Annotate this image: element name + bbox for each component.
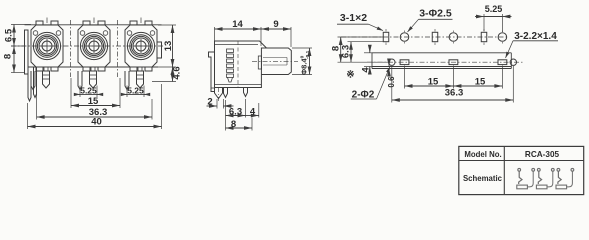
jack J1 bottom tabs bbox=[36, 67, 43, 71]
jack J3 top mounting tabs bbox=[130, 21, 137, 25]
body outline bbox=[215, 41, 267, 88]
jack J3 concentric barrel circles bbox=[127, 32, 154, 59]
dim 40 under left view bbox=[27, 103, 29, 129]
jack J3 bottom tabs bbox=[130, 67, 137, 71]
dim 5.25 under jack 3 bbox=[126, 86, 128, 98]
jack J1 body square with chamfered corners bbox=[31, 25, 63, 67]
slot hole 2.2x1.4 #1 bbox=[400, 60, 409, 65]
schematic jack 1 tip pin with switch bbox=[518, 168, 521, 171]
barrel inner hidden lines bbox=[263, 57, 287, 59]
body right edge bbox=[510, 53, 512, 69]
bottom row dash-dot centerline bbox=[367, 61, 524, 63]
dim 6.5 / 8 vertical at far left bbox=[11, 24, 31, 26]
svg-text:4.6: 4.6 bbox=[172, 66, 183, 79]
left mounting bracket bbox=[25, 30, 29, 74]
slot hole 1x2 #3 bbox=[481, 32, 487, 41]
jack J2 thin pin bbox=[78, 71, 82, 90]
jack J2 top mounting tabs bbox=[83, 21, 90, 25]
body top edge line bbox=[372, 52, 511, 54]
table column divider bbox=[503, 146, 505, 194]
jack J3 center cross bbox=[134, 45, 148, 47]
body left edge bbox=[371, 53, 373, 69]
dim 5.25 top right bbox=[483, 14, 485, 31]
svg-text:5.25: 5.25 bbox=[485, 4, 503, 14]
dim 15 under left view bbox=[70, 78, 72, 108]
svg-text:3-1×2: 3-1×2 bbox=[340, 12, 367, 24]
housing bottom edge line bbox=[28, 66, 158, 68]
slot hole 1x2 #2 bbox=[432, 32, 438, 41]
svg-text:13: 13 bbox=[163, 41, 174, 52]
left PCB bracket of side view bbox=[209, 52, 215, 92]
jack J1 center cross bbox=[40, 45, 54, 47]
horizontal centerline through jacks bbox=[11, 45, 163, 47]
svg-text:5.25: 5.25 bbox=[80, 86, 97, 96]
jack J3 body square with chamfered corners bbox=[125, 25, 157, 67]
inner wall hidden line bbox=[237, 41, 239, 88]
svg-text:8: 8 bbox=[231, 119, 236, 130]
svg-text:3-Φ2.5: 3-Φ2.5 bbox=[419, 8, 452, 20]
schematic jack 1 ground pin bbox=[532, 168, 535, 171]
dim 36.3 under PCB view bbox=[391, 66, 393, 103]
svg-text:15: 15 bbox=[428, 77, 439, 88]
svg-text:6.3: 6.3 bbox=[341, 45, 352, 58]
body bottom plate line bbox=[215, 84, 262, 86]
dim phi8.4 right of barrel bbox=[292, 47, 312, 49]
left bracket leg 2 bbox=[34, 67, 37, 98]
jack J3 corner detail circles bbox=[127, 31, 132, 36]
schematic jack 2 sleeve rectangle bbox=[536, 185, 547, 189]
svg-text:3-2.2×1.4: 3-2.2×1.4 bbox=[514, 31, 557, 42]
jack J2 bottom tabs bbox=[83, 67, 90, 71]
jack J3 ribbed signal pin bbox=[137, 71, 144, 88]
svg-text:15: 15 bbox=[88, 96, 99, 107]
jack J1 thin pin bbox=[31, 71, 35, 90]
jack J2 center cross bbox=[87, 45, 101, 47]
schematic jack 3 sleeve rectangle bbox=[556, 185, 567, 189]
svg-text:4: 4 bbox=[250, 107, 256, 118]
jack J1 vertical centerline tick above bbox=[46, 18, 48, 24]
slot hole 1x2 #1 bbox=[383, 32, 389, 41]
svg-text:6.5: 6.5 bbox=[4, 28, 15, 42]
schematic jack 3 ground pin bbox=[571, 168, 574, 171]
dim 13 vertical right side bbox=[158, 24, 176, 26]
hole phi2.5 #2 bbox=[449, 33, 458, 42]
schematic jack 3 tip pin with switch bbox=[557, 168, 560, 171]
svg-text:36.3: 36.3 bbox=[445, 88, 464, 99]
dim 6.3 and 4 under middle view bbox=[225, 100, 227, 131]
jack J2 concentric barrel circles bbox=[80, 32, 107, 59]
dim 8 under middle view bbox=[251, 118, 253, 131]
hole phi2.5 #3 bbox=[498, 33, 507, 42]
right side tab of jack 3 bbox=[157, 42, 162, 58]
jack J1 ribbed signal pin bbox=[43, 71, 50, 88]
hole phi2 left bbox=[389, 59, 395, 65]
jack J3 vertical centerline tick above bbox=[140, 18, 142, 24]
dim 9 top of middle view bbox=[261, 28, 291, 30]
svg-text:8: 8 bbox=[3, 54, 14, 59]
dim 14 top of middle view bbox=[214, 27, 216, 41]
slot hole 2.2x1.4 #2 bbox=[449, 60, 458, 65]
side view pin 2 bbox=[244, 88, 248, 97]
svg-text:Model No.: Model No. bbox=[464, 150, 501, 159]
left bracket long leg 1 bbox=[28, 74, 31, 101]
svg-text:Schematic: Schematic bbox=[463, 174, 503, 183]
svg-text:15: 15 bbox=[475, 77, 486, 88]
jack J1 concentric barrel circles bbox=[33, 32, 60, 59]
jack J3 thin pin bbox=[125, 71, 129, 90]
svg-text:5.25: 5.25 bbox=[127, 86, 144, 96]
svg-text:※: ※ bbox=[346, 70, 354, 81]
washer step at barrel base bbox=[258, 56, 261, 69]
svg-text:9: 9 bbox=[273, 19, 278, 30]
jack J2 body square with chamfered corners bbox=[78, 25, 110, 67]
dash-dot centerline between jack 1 and 2 bbox=[70, 20, 72, 77]
dim 2 left bottom of middle view bbox=[216, 99, 218, 109]
dim 6.3 left of PCB view bbox=[348, 41, 384, 43]
hole phi2 right bbox=[510, 59, 516, 65]
table row divider bbox=[459, 160, 584, 162]
dash-dot centerline between jack 2 and 3 bbox=[117, 20, 119, 77]
svg-text:14: 14 bbox=[232, 19, 243, 30]
slot hole 2.2x1.4 #3 bbox=[498, 60, 507, 65]
barrel cylinder bbox=[261, 48, 291, 75]
dim 4.6 vertical right side bbox=[152, 81, 176, 83]
dim 36.3 under left view bbox=[36, 90, 38, 120]
dim 5.25 under jack 2 bbox=[79, 86, 81, 98]
contact spring stack inside body bbox=[227, 49, 234, 52]
svg-text:RCA-305: RCA-305 bbox=[525, 150, 560, 159]
bracket leg centerline bbox=[218, 88, 220, 101]
dim 0.6 below body lines bbox=[388, 60, 390, 67]
barrel centerline dash-dot bbox=[252, 60, 298, 62]
svg-text:6.3: 6.3 bbox=[229, 107, 242, 118]
dim 4 at left edge of body bbox=[364, 52, 372, 54]
jack J2 ribbed signal pin bbox=[90, 71, 97, 88]
jack J2 vertical centerline tick above bbox=[93, 18, 95, 24]
schematic jack 1 sleeve rectangle bbox=[517, 185, 528, 189]
jack J1 top mounting tabs bbox=[36, 21, 43, 25]
jack J1 corner detail circles bbox=[33, 31, 38, 36]
svg-text:4: 4 bbox=[361, 67, 372, 73]
side view bracket leg with taper bbox=[215, 88, 223, 99]
spec table outer border bbox=[459, 146, 584, 194]
svg-text:40: 40 bbox=[91, 117, 102, 128]
svg-text:2: 2 bbox=[207, 96, 212, 107]
dim 8 left of PCB view bbox=[338, 36, 385, 38]
side view pin 1 bbox=[224, 88, 228, 98]
hole phi2.5 #1 bbox=[400, 33, 409, 42]
schematic jack 2 tip pin with switch bbox=[537, 168, 540, 171]
top row dash-dot centerline bbox=[341, 36, 508, 38]
jack J2 corner detail circles bbox=[80, 31, 85, 36]
dim 15 pair under PCB view bbox=[404, 66, 406, 89]
body bottom double lines (0.6 apart) bbox=[372, 66, 511, 68]
housing top edge line bbox=[25, 24, 162, 26]
schematic jack 2 ground pin bbox=[551, 168, 554, 171]
